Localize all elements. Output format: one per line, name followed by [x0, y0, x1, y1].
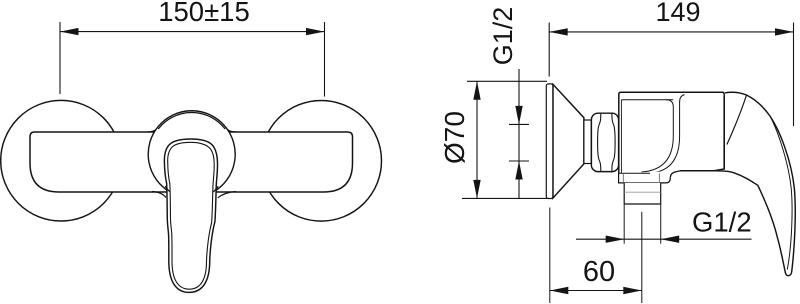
body inner contour top: [621, 99, 673, 101]
body inner contour right outer vertical + arc: [647, 95, 685, 174]
witness line top (flange): [467, 80, 547, 82]
witness line left for 60: [549, 208, 551, 304]
G1/2 tick bottom: [509, 160, 529, 162]
dome-topline fillet right: [227, 129, 236, 132]
arrow top of Ø70: [473, 81, 480, 100]
handle inner highlight line: [770, 117, 792, 270]
handle neck fillet right (over handle): [213, 186, 218, 192]
dimension 149 line: [549, 31, 793, 33]
arrow pointing left at pipe right wall: [661, 236, 680, 243]
hex nut facet line left: [598, 114, 601, 172]
hex nut: [591, 113, 618, 171]
dome-topline fillet left: [148, 129, 157, 132]
collar between cone and nut: [584, 120, 591, 164]
cartridge dome inner arc: [158, 112, 225, 129]
lever handle (side) outline: [714, 92, 795, 275]
arrow left of 149: [549, 28, 568, 35]
dimension Ø70 line: [476, 81, 478, 198]
svg-text:G1/2: G1/2: [692, 207, 752, 238]
handle neck fillet left (over handle): [165, 186, 170, 192]
arrow up to G1/2 tick bottom: [515, 161, 522, 180]
dimension 150±15 extension line right: [324, 22, 326, 97]
wall flange cone: [553, 84, 584, 198]
shoulder band: [619, 171, 680, 183]
outlet centerline extension: [641, 212, 643, 303]
svg-text:G1/2: G1/2: [488, 7, 518, 66]
mixer body (front): [30, 132, 353, 192]
re-stroke body right edge: [723, 96, 725, 170]
witness line bottom (flange): [462, 197, 547, 199]
handle front-face slant line: [727, 95, 747, 145]
right escutcheon circle: [261, 101, 382, 222]
dimension G1/2 (inlet) line: [518, 69, 520, 198]
mixer body (side): [619, 92, 724, 173]
shoulder tick right: [658, 173, 660, 182]
svg-text:149: 149: [655, 0, 700, 27]
wall flange face plate: [546, 84, 553, 199]
re-stroke body bottom edge: [680, 170, 715, 172]
G1/2 tick top: [509, 123, 529, 125]
dome mask over body top line: [155, 131, 229, 134]
outlet pipe hex section: [624, 183, 661, 204]
cartridge dome outer circle arc: [148, 111, 235, 192]
arrow pointing right at pipe left wall: [606, 236, 625, 243]
arrow down to G1/2 tick top: [515, 106, 522, 125]
body bottom fillet left of handle: [152, 192, 166, 198]
body bottom fillet right of handle: [218, 192, 236, 198]
shoulder tick left: [622, 173, 624, 182]
arrow right of 150±15: [306, 28, 325, 35]
dimension 149 extension left: [548, 23, 550, 77]
hex nut facet line right: [612, 114, 615, 172]
lever handle (side) fill: [714, 92, 795, 275]
G1/2 outlet leader line: [576, 238, 752, 240]
shoulder top edge: [619, 172, 650, 174]
outlet pipe groove light: [624, 191, 661, 193]
svg-text:60: 60: [583, 256, 615, 288]
arrow left of 150±15: [60, 28, 79, 35]
arrow right of 149: [775, 28, 794, 35]
lever handle (front) inner outline: [168, 142, 215, 289]
svg-text:150±15: 150±15: [158, 0, 250, 27]
arrow bottom of Ø70: [473, 180, 480, 199]
dimension 60 line: [550, 290, 642, 292]
outlet pipe thread wall left: [623, 204, 625, 244]
left escutcheon circle: [1, 100, 122, 221]
dimension 150±15 line: [60, 31, 325, 33]
dimension 150±15 extension line left: [59, 22, 61, 94]
lever handle (front) outer outline: [164, 139, 217, 292]
body inner contour right inner vertical + arc: [642, 100, 674, 172]
dimension 149 extension right: [793, 23, 795, 127]
svg-text:Ø70: Ø70: [439, 111, 470, 164]
arrow right of 60: [623, 287, 642, 294]
body inner contour left: [620, 100, 622, 173]
arrow left of 60: [550, 287, 569, 294]
outlet pipe thread wall right: [660, 204, 662, 244]
